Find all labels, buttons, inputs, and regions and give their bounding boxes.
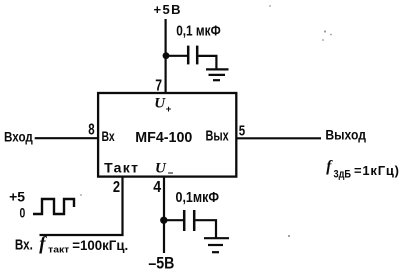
svg-text:4: 4 xyxy=(153,179,161,196)
clock square wave symbol xyxy=(33,199,74,214)
wire capacitor C2 to ground xyxy=(195,220,216,238)
svg-text:f: f xyxy=(326,158,333,175)
svg-text:+5В: +5В xyxy=(154,2,181,17)
svg-text:0: 0 xyxy=(20,205,26,221)
ground symbol bottom xyxy=(204,238,229,252)
svg-text:=1кГц): =1кГц) xyxy=(354,163,399,178)
wire input Вход to pin 8 xyxy=(35,137,98,139)
svg-text:–5В: –5В xyxy=(148,255,174,271)
svg-text:Вх: Вх xyxy=(102,128,115,144)
IC U1 MF4-100 body xyxy=(98,93,236,177)
svg-text:Вых: Вых xyxy=(206,129,229,145)
junction node bottom xyxy=(160,217,167,224)
svg-text:такт: такт xyxy=(48,245,69,256)
capacitor C2 0,1 мкФ plates xyxy=(183,210,186,231)
wire output pin 5 to Выход xyxy=(236,137,321,139)
svg-text:–: – xyxy=(168,168,174,179)
wire capacitor C1 to ground xyxy=(198,56,216,69)
svg-text:7: 7 xyxy=(155,78,162,95)
wire +5V supply vertical to pin 7 xyxy=(165,19,167,93)
svg-text:Вход: Вход xyxy=(4,129,33,144)
wire clock input to pin 2 xyxy=(40,177,123,235)
wire top bypass cap branch xyxy=(166,55,187,57)
svg-text:=100кГц.: =100кГц. xyxy=(72,237,128,253)
svg-text:Выход: Выход xyxy=(325,127,366,143)
svg-text:+5: +5 xyxy=(9,189,25,205)
wire -5V supply vertical from pin 4 xyxy=(163,177,165,253)
scan specks (noise) xyxy=(80,5,332,237)
svg-text:0,1 мкФ: 0,1 мкФ xyxy=(176,22,221,39)
junction node top xyxy=(163,52,170,59)
capacitor C1 0,1 мкФ plates xyxy=(187,46,190,65)
svg-text:U: U xyxy=(154,96,166,112)
svg-text:2: 2 xyxy=(113,179,120,196)
svg-text:0,1мкФ: 0,1мкФ xyxy=(176,189,220,206)
svg-text:MF4-100: MF4-100 xyxy=(135,129,192,146)
svg-text:Такт: Такт xyxy=(104,159,138,175)
wire bottom bypass cap branch xyxy=(164,219,183,221)
svg-text:f: f xyxy=(39,235,47,255)
svg-text:Вх.: Вх. xyxy=(15,238,33,254)
svg-text:+: + xyxy=(166,104,172,115)
ground symbol top xyxy=(206,69,229,80)
svg-text:8: 8 xyxy=(88,122,95,139)
svg-text:U: U xyxy=(155,160,167,176)
svg-text:5: 5 xyxy=(239,123,245,140)
svg-text:3дБ: 3дБ xyxy=(334,169,352,181)
